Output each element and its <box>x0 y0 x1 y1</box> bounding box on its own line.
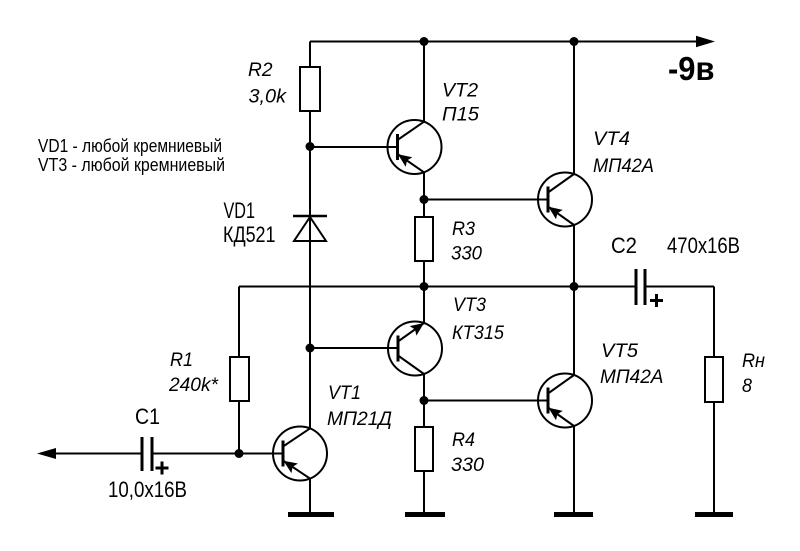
ground VT5 <box>554 512 593 517</box>
diode VD1 <box>293 216 327 241</box>
ground R4 <box>405 512 445 517</box>
wire node A through VD1 to node E <box>309 147 311 349</box>
svg-text:R2: R2 <box>248 60 273 81</box>
node A junction <box>306 142 315 151</box>
resistor R4 <box>415 427 433 471</box>
wire VT3 base <box>310 347 398 349</box>
wire R3 bottom lead <box>423 261 425 287</box>
transistor VT2 <box>388 120 442 174</box>
node F junction <box>420 396 429 405</box>
wire C1 input <box>54 453 142 455</box>
wire VT4 emitter lead <box>573 225 575 287</box>
capacitor C2 <box>636 269 663 307</box>
wire VT3 collector lead <box>423 374 425 401</box>
node G junction <box>235 449 244 458</box>
wire Rn bottom lead <box>713 402 715 514</box>
svg-text:R4: R4 <box>452 430 475 451</box>
wire VT2 base <box>310 146 398 148</box>
transistor VT5 <box>538 374 592 428</box>
wire node E to VT1 collector <box>309 348 311 428</box>
wire R4 top lead <box>423 401 425 428</box>
svg-text:330: 330 <box>451 455 484 476</box>
node D junction <box>570 282 579 291</box>
svg-text:VT2: VT2 <box>442 81 478 102</box>
wire VT3 emitter lead <box>423 287 425 324</box>
supply arrow -9V <box>696 36 715 47</box>
transistor VT3 <box>388 322 442 376</box>
ground Rn <box>695 512 733 517</box>
svg-text:VT3 - любой кремниевый: VT3 - любой кремниевый <box>38 155 225 175</box>
svg-text:8: 8 <box>742 376 752 397</box>
wire R2 bottom to node A <box>309 111 311 147</box>
svg-text:3,0k: 3,0k <box>249 87 288 108</box>
wire R3 top lead <box>423 200 425 218</box>
svg-text:470x16В: 470x16В <box>667 233 740 258</box>
wire R4 bottom lead <box>423 471 425 514</box>
wire VT4 collector lead <box>573 42 575 175</box>
wire VT5 emitter lead <box>573 426 575 514</box>
node E junction <box>306 344 315 353</box>
node top rail VT4 junction <box>570 37 579 46</box>
node top rail VT2 junction <box>420 37 429 46</box>
svg-text:VT1: VT1 <box>328 383 361 404</box>
svg-text:C1: C1 <box>135 404 160 429</box>
wire VT2 emitter lead <box>423 172 425 199</box>
svg-text:МП42А: МП42А <box>593 156 654 177</box>
svg-text:-9в: -9в <box>668 50 715 87</box>
svg-text:VT5: VT5 <box>601 341 638 362</box>
svg-text:VT3: VT3 <box>453 295 486 316</box>
svg-text:10,0x16В: 10,0x16В <box>108 477 187 502</box>
ground VT1 <box>288 512 334 517</box>
resistor R2 <box>300 67 320 111</box>
wire Rn top lead <box>713 287 715 358</box>
wire VT5 collector lead <box>573 287 575 376</box>
wire C1 to node G <box>152 453 239 455</box>
wire R1 top lead <box>238 287 240 358</box>
svg-text:R3: R3 <box>452 219 475 240</box>
svg-text:VD1 - любой кремниевый: VD1 - любой кремниевый <box>38 136 222 156</box>
svg-text:R1: R1 <box>170 350 193 371</box>
wire R1 bottom lead <box>238 401 240 454</box>
svg-text:КД521: КД521 <box>223 222 276 247</box>
wire mid feedback rail <box>239 286 636 288</box>
wire top supply rail <box>310 41 698 43</box>
wire VT2 collector lead <box>423 42 425 122</box>
svg-text:VD1: VD1 <box>224 198 256 223</box>
resistor Rn load <box>705 357 723 402</box>
capacitor C1 <box>142 437 169 475</box>
svg-text:VT4: VT4 <box>593 129 630 150</box>
resistor R3 <box>415 217 433 261</box>
resistor R1 <box>230 357 249 401</box>
transistor VT4 <box>538 173 592 227</box>
wire VT1 emitter lead <box>309 479 311 514</box>
wire C2 to Rn corner <box>645 286 714 288</box>
wire node F to VT5 base <box>424 400 548 402</box>
node C junction <box>420 282 429 291</box>
wire R2 top lead <box>309 42 311 68</box>
node B junction <box>420 195 429 204</box>
transistor VT1 <box>273 427 327 481</box>
svg-text:C2: C2 <box>611 233 637 258</box>
svg-text:МП21Д: МП21Д <box>327 409 392 430</box>
svg-text:Rн: Rн <box>742 351 766 372</box>
input arrow <box>37 448 56 459</box>
svg-text:240k*: 240k* <box>168 375 219 396</box>
svg-text:330: 330 <box>451 244 482 265</box>
svg-text:П15: П15 <box>442 105 479 126</box>
wire node B to VT4 base <box>424 199 548 201</box>
svg-text:МП42А: МП42А <box>600 367 664 388</box>
wire VT1 base <box>239 453 283 455</box>
svg-text:КТ315: КТ315 <box>452 323 504 344</box>
